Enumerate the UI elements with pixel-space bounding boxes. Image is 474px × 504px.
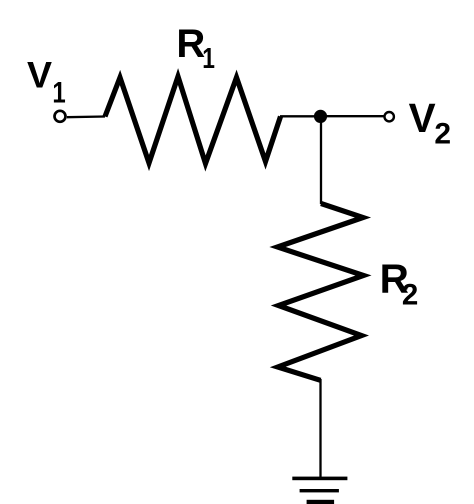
ground bar 1 [292,477,347,481]
resistor R1 [105,77,281,164]
ground bar 3 [307,500,335,504]
svg-text:V: V [27,54,52,96]
wire V1 to R1 [67,115,105,118]
wire R1 to node [280,115,316,117]
terminal V2 [385,112,394,121]
label R2 [380,256,419,312]
label V1 [27,54,66,109]
terminal V1 [55,111,66,122]
svg-text:1: 1 [52,75,65,109]
wire R2 to ground [319,379,321,478]
svg-text:2: 2 [402,279,418,312]
wire node to V2 [325,115,384,117]
svg-text:2: 2 [434,118,451,151]
label R1 [176,22,215,75]
label V2 [409,95,451,151]
svg-text:1: 1 [202,44,215,75]
resistor R2 [278,204,364,381]
svg-text:V: V [409,95,436,141]
wire node to R2 [320,118,322,204]
node junction [314,110,327,123]
ground bar 2 [300,489,339,492]
svg-text:R: R [176,22,205,66]
